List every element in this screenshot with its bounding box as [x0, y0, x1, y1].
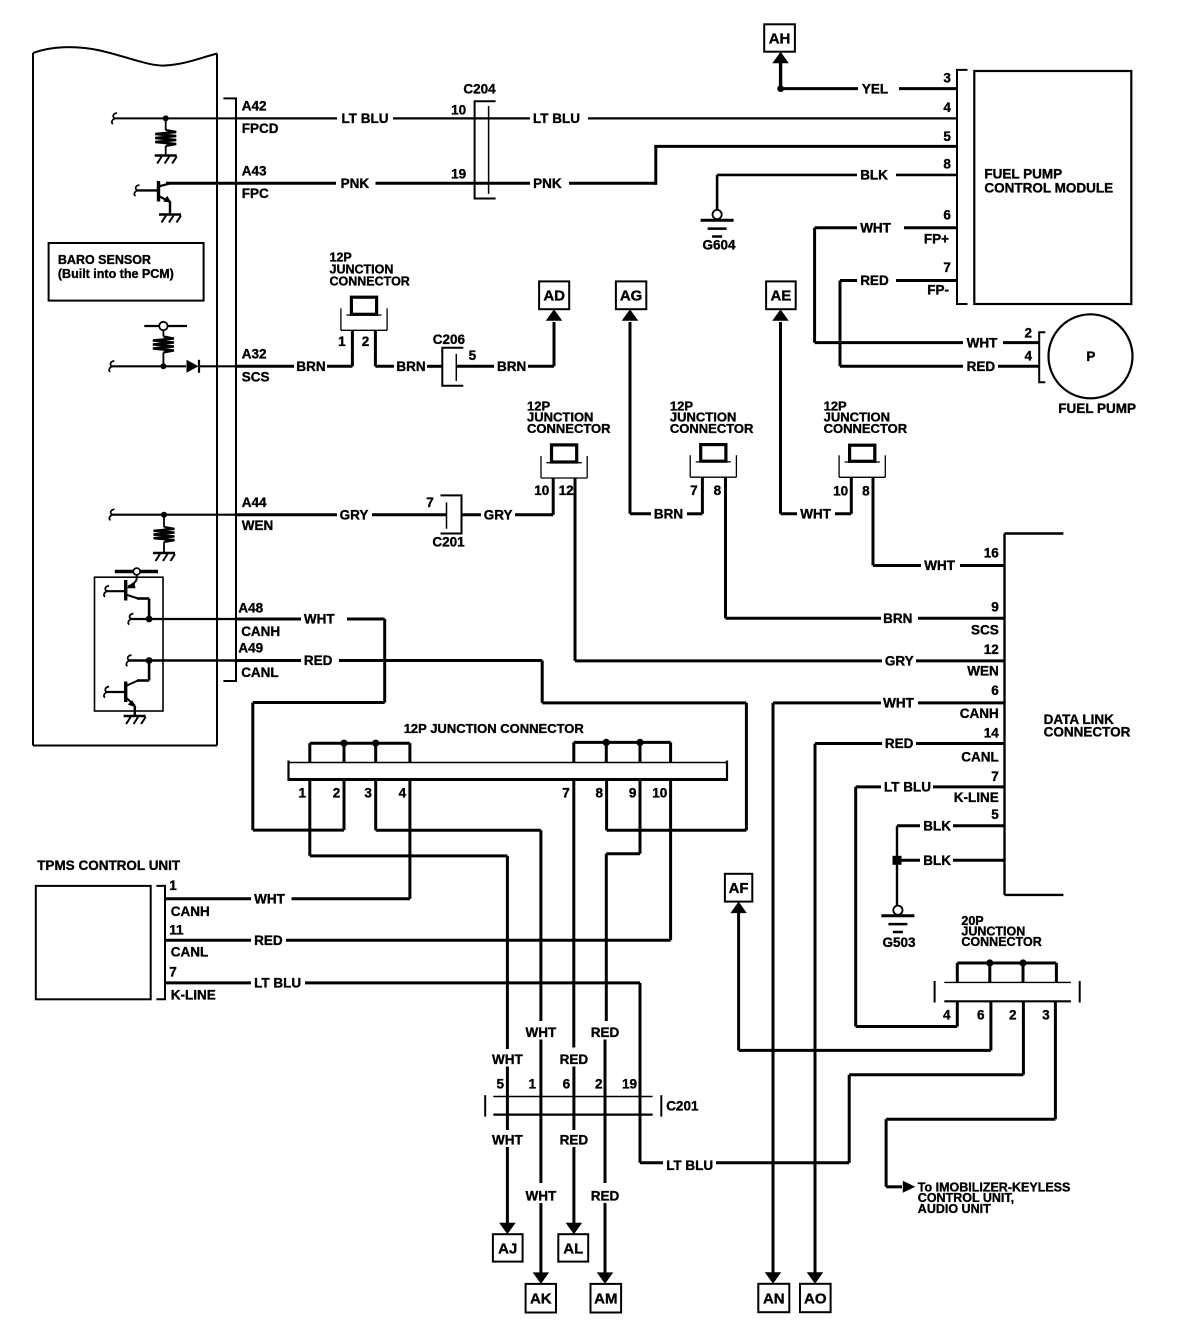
svg-text:WHT: WHT [526, 1189, 557, 1204]
svg-text:LT BLU: LT BLU [884, 780, 931, 795]
wire YEL to AH [772, 52, 957, 97]
svg-text:RED: RED [591, 1025, 620, 1040]
svg-text:4: 4 [399, 786, 407, 801]
svg-text:BLK: BLK [860, 168, 888, 183]
svg-text:RED: RED [254, 933, 283, 948]
svg-text:C204: C204 [463, 81, 496, 96]
wire A48 internal [128, 614, 236, 625]
CAN driver box [95, 577, 164, 711]
DLC pin 12 WEN [967, 642, 999, 679]
label box AH [764, 24, 795, 51]
main JC pin 8 leg [605, 780, 608, 831]
label box AO [800, 1272, 831, 1312]
svg-text:4: 4 [1024, 349, 1032, 364]
svg-text:FPC: FPC [242, 186, 269, 201]
data link connector outline [1005, 534, 1131, 895]
svg-text:CANH: CANH [241, 624, 280, 639]
svg-text:BLK: BLK [923, 818, 951, 833]
label box AE [766, 281, 796, 320]
svg-text:WHT: WHT [860, 221, 891, 236]
svg-text:(Built into the PCM): (Built into the PCM) [58, 267, 174, 281]
label 12P JUNCTION CONNECTOR (AG) [670, 398, 754, 435]
svg-text:WHT: WHT [304, 612, 335, 627]
svg-text:RED: RED [560, 1133, 589, 1148]
wire A43 PNK [166, 146, 958, 191]
wire BRN (AG to JC) [630, 322, 702, 522]
svg-text:BRN: BRN [654, 507, 683, 522]
svg-text:AM: AM [594, 1291, 617, 1308]
wire A32 BRN [236, 359, 352, 374]
svg-text:WEN: WEN [967, 664, 999, 679]
svg-text:CONNECTOR: CONNECTOR [961, 935, 1041, 949]
junction connector 12P (AG) [690, 445, 736, 619]
svg-text:PNK: PNK [533, 176, 562, 191]
label box AJ [493, 1234, 523, 1261]
wire BLK 1 to DLC 5 [897, 818, 1005, 905]
svg-text:4: 4 [943, 1007, 951, 1022]
svg-text:1: 1 [298, 786, 306, 801]
CAN supply line [115, 568, 158, 575]
svg-text:FP-: FP- [927, 283, 949, 298]
connector C201 (bottom) [485, 1095, 699, 1116]
svg-text:AN: AN [763, 1290, 785, 1307]
svg-text:CONNECTOR: CONNECTOR [670, 421, 754, 436]
svg-text:GRY: GRY [484, 507, 513, 522]
svg-text:WHT: WHT [492, 1052, 523, 1067]
svg-text:9: 9 [629, 786, 637, 801]
label box AF [725, 874, 752, 1051]
wire WHT (AE to JC) [781, 322, 852, 522]
svg-text:1: 1 [169, 878, 177, 893]
ground G503 [881, 906, 916, 950]
wire A32 internal [109, 361, 236, 372]
svg-text:6: 6 [991, 683, 999, 698]
bridge 20P [957, 959, 1056, 982]
svg-text:2: 2 [1024, 326, 1032, 341]
wire GRY to DLC WEN [575, 654, 1005, 669]
svg-text:19: 19 [622, 1076, 637, 1091]
label box AN [758, 1272, 789, 1312]
20P pin numbers [943, 1007, 1050, 1022]
svg-text:8: 8 [862, 484, 870, 499]
ground (Q3) [124, 716, 146, 724]
A32 pull-up supply line [144, 322, 187, 330]
20P pin 3 leg to imobilizer [886, 1001, 1055, 1193]
svg-text:FUEL PUMP: FUEL PUMP [1058, 401, 1136, 416]
label 20P JUNCTION CONNECTOR [961, 914, 1041, 949]
DLC pin 9 SCS [971, 599, 999, 637]
svg-text:CONNECTOR: CONNECTOR [824, 421, 908, 436]
node dot A49 [146, 657, 153, 664]
wire RED FP- [840, 273, 1039, 374]
fuel pump control module box [974, 71, 1131, 304]
svg-text:CANH: CANH [171, 904, 210, 919]
main JC pin 10 leg [669, 780, 672, 941]
svg-text:A42: A42 [242, 98, 267, 113]
svg-text:AL: AL [563, 1240, 583, 1257]
DLC pin 6 CANH [960, 683, 999, 721]
C201 pin numbers [496, 1076, 637, 1091]
junction connector 12P (A44) [534, 445, 587, 661]
svg-text:A49: A49 [238, 641, 263, 656]
connector C204 [451, 81, 496, 198]
svg-text:AG: AG [620, 288, 643, 305]
svg-text:FUEL PUMP: FUEL PUMP [984, 167, 1062, 182]
label To IMOBILIZER [918, 1180, 1071, 1216]
svg-text:PNK: PNK [341, 176, 370, 191]
svg-text:7: 7 [991, 769, 999, 784]
wire BLK 2 to DLC [893, 853, 1005, 868]
svg-text:AD: AD [543, 288, 565, 305]
svg-text:2: 2 [595, 1076, 603, 1091]
main JC pin 9 leg [606, 780, 640, 1022]
transistor Q1 [134, 181, 171, 214]
svg-text:A32: A32 [242, 347, 267, 362]
label 12P JUNCTION CONNECTOR (A44) [527, 398, 611, 435]
wire WHT to DLC 16 [873, 558, 1005, 573]
resistor R2 [153, 330, 174, 366]
svg-text:WHT: WHT [800, 507, 831, 522]
label box AG [616, 281, 646, 320]
svg-text:C201: C201 [432, 534, 465, 549]
wire A44 GRY [236, 507, 447, 522]
svg-text:K-LINE: K-LINE [954, 790, 999, 805]
junction connector 12P (AE) [833, 445, 885, 565]
FPCM pin 6 / FP+ [924, 208, 952, 247]
svg-text:BARO SENSOR: BARO SENSOR [58, 253, 151, 267]
svg-text:CONTROL MODULE: CONTROL MODULE [984, 181, 1113, 196]
svg-text:A43: A43 [242, 164, 267, 179]
svg-text:TPMS CONTROL UNIT: TPMS CONTROL UNIT [37, 858, 181, 873]
wire BRN to DLC SCS [726, 611, 1005, 626]
FPCM pin 7 / FP- [927, 260, 951, 298]
wire BRN (C206 to AD) [457, 322, 554, 374]
svg-text:GRY: GRY [885, 654, 914, 669]
svg-text:C201: C201 [666, 1099, 699, 1114]
svg-text:RED: RED [967, 359, 996, 374]
wire RED to DLC CANL and AO [815, 736, 1005, 1272]
svg-text:7: 7 [562, 786, 570, 801]
svg-text:5: 5 [943, 129, 951, 144]
wire RED (JC pin9) to AM [591, 1025, 620, 1284]
DLC pin 14 CANL [961, 726, 999, 765]
svg-text:12P JUNCTION CONNECTOR: 12P JUNCTION CONNECTOR [404, 721, 585, 736]
svg-text:LT BLU: LT BLU [254, 976, 301, 991]
wire A44 internal [109, 509, 236, 520]
wire A49 internal [126, 655, 236, 666]
wire BLK to G604 [717, 168, 957, 210]
label 12P JUNCTION CONNECTOR (AE) [824, 398, 908, 435]
PCM box (ECM/PCM outline with wavy top) [33, 47, 217, 745]
svg-text:LT BLU: LT BLU [342, 111, 389, 126]
svg-text:CANH: CANH [960, 706, 999, 721]
ground (R1) [155, 156, 177, 164]
svg-text:7: 7 [426, 495, 434, 510]
connector C206 [433, 332, 477, 386]
svg-text:WHT: WHT [883, 696, 914, 711]
resistor R3 [154, 515, 175, 553]
svg-text:WHT: WHT [492, 1133, 523, 1148]
svg-text:8: 8 [714, 483, 722, 498]
svg-text:2: 2 [333, 786, 341, 801]
svg-text:7: 7 [690, 483, 698, 498]
svg-text:CANL: CANL [171, 944, 209, 959]
node dot A44 [161, 512, 167, 518]
svg-text:5: 5 [469, 348, 477, 363]
TPMS pin 11 CANL [165, 923, 671, 960]
svg-text:BRN: BRN [296, 359, 325, 374]
label box AM [591, 1284, 622, 1313]
20P pin 6 leg to AF [739, 1001, 991, 1050]
svg-text:8: 8 [595, 786, 603, 801]
wire LT BLU (K-LINE) through C201 [640, 983, 849, 1173]
label box AL [558, 1234, 588, 1261]
svg-text:1: 1 [338, 334, 346, 349]
svg-text:4: 4 [943, 100, 951, 115]
svg-text:10: 10 [534, 483, 549, 498]
svg-text:RED: RED [560, 1052, 589, 1067]
svg-text:3: 3 [1042, 1007, 1050, 1022]
svg-text:BRN: BRN [883, 611, 912, 626]
wire WHT to DLC CANH and AN [773, 696, 1005, 1273]
main JC pin 7 leg [572, 780, 575, 1048]
svg-text:AJ: AJ [498, 1240, 517, 1257]
svg-text:WHT: WHT [967, 335, 998, 350]
svg-text:8: 8 [943, 157, 951, 172]
svg-text:LT BLU: LT BLU [666, 1158, 713, 1173]
svg-text:19: 19 [451, 167, 466, 182]
svg-text:10: 10 [451, 102, 466, 117]
junction connector 20P bar [935, 981, 1080, 1003]
svg-text:RED: RED [591, 1189, 620, 1204]
svg-text:AK: AK [530, 1291, 552, 1308]
svg-text:16: 16 [984, 545, 1000, 560]
svg-text:BRN: BRN [396, 359, 425, 374]
svg-text:10: 10 [652, 786, 667, 801]
svg-text:G503: G503 [882, 935, 916, 950]
wire LT BLU to DLC K-LINE [856, 780, 1005, 1027]
wire WHT (JC1 pin1) to AJ [492, 856, 523, 1234]
svg-text:3: 3 [943, 71, 951, 86]
svg-text:G604: G604 [702, 238, 736, 253]
ground G604 [701, 210, 736, 253]
svg-text:BRN: BRN [497, 359, 526, 374]
svg-text:FP+: FP+ [924, 232, 949, 247]
junction connector 12P main bar [289, 761, 728, 781]
svg-text:A48: A48 [238, 600, 263, 615]
DLC pin 7 K-LINE [954, 769, 999, 805]
ground (R3) [153, 553, 175, 561]
main JC pin 1 leg [310, 780, 508, 856]
node dot A48 [146, 616, 153, 623]
svg-text:GRY: GRY [340, 507, 369, 522]
svg-text:CANL: CANL [241, 665, 279, 680]
ground (Q1) [159, 215, 181, 223]
connector C201 (A44) [426, 495, 465, 549]
svg-text:LT BLU: LT BLU [533, 111, 580, 126]
svg-text:SCS: SCS [971, 622, 999, 637]
svg-text:FPCD: FPCD [242, 121, 279, 136]
resistor R1 [155, 118, 176, 155]
svg-text:2: 2 [1009, 1007, 1017, 1022]
wire GRY (C201 to JC) [462, 507, 554, 522]
junction connector 12P (A32) [338, 297, 387, 366]
svg-text:7: 7 [943, 260, 951, 275]
main JC pin 4 leg [408, 780, 411, 899]
label box AK [526, 1284, 556, 1313]
svg-text:6: 6 [943, 208, 951, 223]
wire BRN (JC to C206) [375, 359, 442, 374]
pin label A44/WEN [242, 495, 273, 533]
svg-text:C206: C206 [433, 332, 466, 347]
svg-text:WHT: WHT [924, 558, 955, 573]
label box AD [539, 281, 569, 320]
svg-text:AF: AF [729, 880, 749, 897]
main JC pin 3 leg [376, 780, 541, 831]
main JC pin numbers [298, 786, 667, 801]
svg-text:CONNECTOR: CONNECTOR [527, 421, 611, 436]
svg-text:CONNECTOR: CONNECTOR [1044, 724, 1131, 739]
wire RED (JC pin7) to AL [560, 1052, 589, 1234]
svg-text:3: 3 [364, 786, 372, 801]
pin label A49/CANL [238, 641, 278, 680]
main JC pin 2 leg [343, 780, 346, 831]
label 12P JUNCTION CONNECTOR (A32) [330, 251, 410, 289]
svg-text:RED: RED [885, 736, 914, 751]
pin label A32/SCS [242, 347, 270, 385]
svg-text:12: 12 [984, 642, 999, 657]
svg-text:7: 7 [169, 964, 177, 979]
node dot A32 [160, 363, 166, 369]
pin label A48/CANH [238, 600, 280, 639]
transistor Q3 [104, 661, 149, 716]
20P pin 4 leg [856, 1001, 958, 1026]
diode D1 [187, 360, 200, 373]
bridge pins 1-4 [310, 740, 410, 763]
svg-text:SCS: SCS [242, 370, 270, 385]
svg-text:5: 5 [496, 1076, 504, 1091]
svg-text:RED: RED [860, 273, 889, 288]
transistor Q2 [104, 575, 149, 619]
svg-text:BLK: BLK [923, 853, 951, 868]
node dot A42 [163, 115, 169, 121]
svg-text:WEN: WEN [242, 518, 273, 533]
svg-text:CONNECTOR: CONNECTOR [330, 275, 410, 289]
svg-text:11: 11 [169, 923, 184, 938]
wire A49 RED route [236, 653, 746, 830]
BARO sensor label box [49, 243, 204, 301]
TPMS control unit box [36, 858, 181, 999]
bridge pins 7-10 [574, 739, 671, 763]
TPMS pin 1 CANH [165, 878, 410, 919]
20P pin 2 leg [849, 1001, 1023, 1162]
pin label A42/FPCD [242, 98, 279, 136]
FPCM connector bracket [957, 70, 968, 304]
TPMS pin 7 K-LINE [165, 964, 640, 1002]
fuel pump P [1024, 314, 1136, 416]
svg-text:10: 10 [833, 484, 848, 499]
svg-text:AO: AO [804, 1290, 827, 1307]
svg-text:A44: A44 [242, 495, 267, 510]
svg-text:12: 12 [559, 483, 574, 498]
svg-text:6: 6 [563, 1076, 571, 1091]
wire A42 LT BLU [236, 111, 958, 126]
svg-text:K-LINE: K-LINE [171, 987, 216, 1002]
pin label A43/FPC [242, 164, 269, 202]
PCM connector bracket [223, 98, 236, 681]
svg-text:14: 14 [984, 726, 1000, 741]
svg-text:CANL: CANL [961, 750, 999, 765]
svg-text:WHT: WHT [526, 1025, 557, 1040]
svg-text:5: 5 [991, 807, 999, 822]
svg-text:AE: AE [770, 288, 791, 305]
svg-text:RED: RED [304, 653, 333, 668]
wire WHT (JC pin3) to AK [526, 830, 557, 1284]
svg-text:9: 9 [991, 599, 999, 614]
svg-text:1: 1 [528, 1076, 536, 1091]
wire A42 internal [112, 113, 236, 124]
wire A48 WHT route [236, 612, 385, 830]
svg-text:2: 2 [362, 334, 370, 349]
svg-text:P: P [1086, 349, 1095, 364]
svg-text:WHT: WHT [254, 892, 285, 907]
svg-text:AUDIO UNIT: AUDIO UNIT [918, 1202, 991, 1216]
svg-text:YEL: YEL [862, 81, 888, 96]
svg-text:AH: AH [769, 30, 791, 47]
svg-text:6: 6 [977, 1007, 985, 1022]
wire WHT FP+ [815, 221, 1040, 351]
